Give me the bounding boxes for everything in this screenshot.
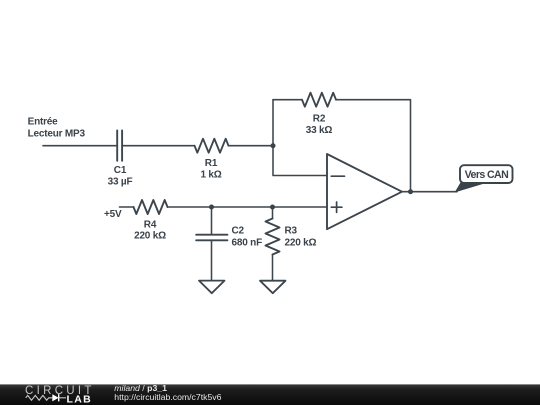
wire feedback top left [273, 99, 302, 101]
wire node A up to feedback [272, 100, 274, 146]
svg-text:33 µF: 33 µF [108, 176, 133, 187]
svg-text:R4: R4 [144, 219, 157, 230]
svg-text:Lecteur MP3: Lecteur MP3 [28, 129, 86, 140]
wire node B down to C2 [211, 207, 213, 235]
net flag Vers CAN box [460, 165, 513, 183]
svg-text:C2: C2 [232, 226, 245, 237]
svg-text:R2: R2 [313, 114, 326, 125]
net flag Vers CAN tail [456, 183, 486, 192]
wire R3 to ground [272, 255, 274, 281]
logo resistor squiggle [26, 395, 53, 400]
svg-text:220 kΩ: 220 kΩ [134, 231, 166, 242]
resistor R1 [195, 139, 229, 153]
wire R1 to node A [229, 145, 274, 147]
op-amp U1 [327, 154, 402, 229]
wire C1 to R1 [122, 145, 194, 147]
node A junction dot [271, 143, 276, 148]
node B junction dot (C2) [209, 205, 214, 210]
svg-text:680 nF: 680 nF [232, 237, 263, 248]
svg-text:LAB: LAB [67, 394, 92, 405]
op-amp minus sign [331, 175, 344, 177]
svg-text:220 kΩ: 220 kΩ [285, 237, 317, 248]
svg-text:+5V: +5V [104, 209, 122, 220]
svg-text:http://circuitlab.com/c7tk5v6: http://circuitlab.com/c7tk5v6 [114, 392, 221, 402]
resistor R4 [134, 200, 168, 214]
resistor R2 [302, 93, 336, 107]
wire feedback top right [336, 100, 411, 192]
ground under C2 [199, 281, 225, 294]
wire node C down to R3 [272, 207, 274, 219]
wire +5V to R4 [120, 206, 134, 208]
svg-text:R3: R3 [285, 226, 298, 237]
ground under R3 [260, 281, 286, 294]
output node junction dot [408, 189, 413, 194]
capacitor C1 [117, 130, 122, 160]
svg-text:Vers CAN: Vers CAN [465, 169, 508, 181]
resistor R3 [266, 219, 280, 255]
wire node A down to inverting input [273, 146, 327, 176]
capacitor C2 [196, 235, 227, 241]
svg-text:R1: R1 [205, 158, 218, 169]
logo diode [52, 394, 58, 401]
svg-text:C1: C1 [114, 165, 127, 176]
wire R4 to noninverting input [168, 206, 328, 208]
svg-text:33 kΩ: 33 kΩ [306, 125, 333, 136]
svg-text:1 kΩ: 1 kΩ [200, 169, 221, 180]
wire op-amp output [402, 191, 457, 193]
wire input to C1 [43, 145, 117, 147]
op-amp plus sign [331, 202, 342, 212]
node C junction dot (R3) [270, 205, 275, 210]
svg-text:Entrée: Entrée [28, 117, 59, 128]
wire C2 to ground [211, 240, 213, 280]
